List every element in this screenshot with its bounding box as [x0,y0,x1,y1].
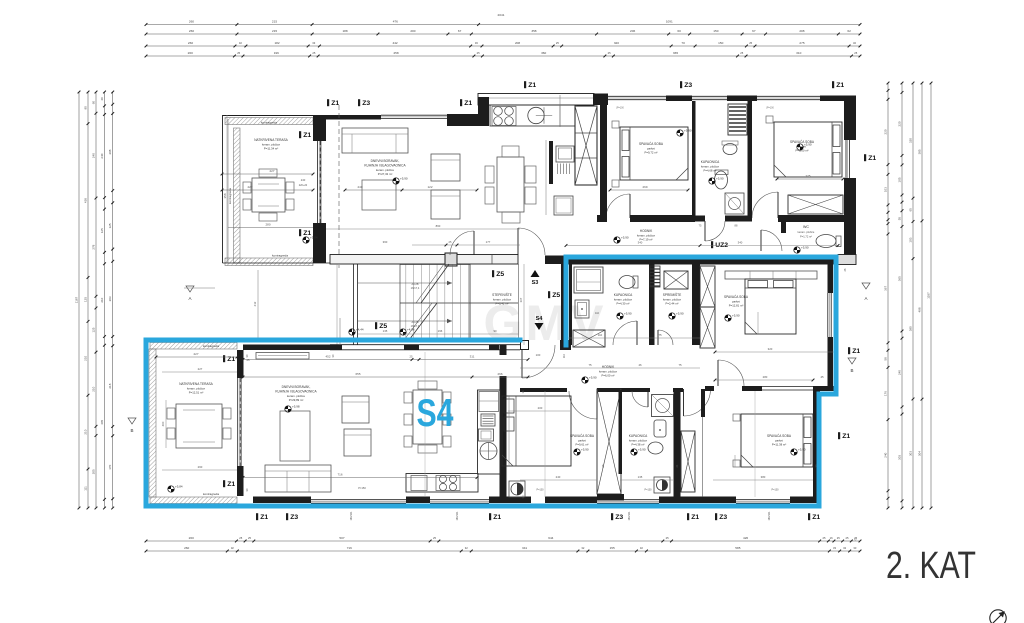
svg-text:240: 240 [301,178,306,182]
svg-text:55: 55 [897,217,901,221]
utility sink upper [556,146,574,162]
wall segment y115 [326,115,381,120]
level mark stair mid [400,329,406,335]
level mark kupaonica mid [617,313,623,319]
S4 mid bathroom shower [574,267,603,293]
svg-text:+5,84: +5,84 [310,236,318,240]
S4 terrace/living wall x237 [237,350,244,378]
kitchen counter upper [490,105,593,126]
svg-text:365: 365 [897,276,901,281]
svg-text:Z1: Z1 [842,433,850,440]
closet S4 between bath and bedroom [681,431,695,492]
svg-text:P=100: P=100 [772,489,780,492]
electro box in wall [445,253,457,266]
svg-text:150: 150 [713,29,718,33]
svg-text:25: 25 [247,358,250,362]
top chain row3 [146,45,860,47]
svg-text:Z5: Z5 [496,271,504,278]
svg-text:B: B [850,368,853,373]
svg-text:+5,90: +5,90 [676,312,684,316]
shower S4 [652,395,674,417]
svg-text:P=8,42 m²: P=8,42 m² [496,302,509,306]
S4 terrace bottom band [150,497,237,504]
svg-text:KUHINJA I BLAGOVAONICA: KUHINJA I BLAGOVAONICA [364,164,406,168]
svg-text:Z1: Z1 [331,100,339,107]
svg-text:16: 16 [830,536,833,540]
svg-text:426: 426 [743,536,748,540]
wall under blue S4 top boundary [566,260,838,265]
svg-text:+5,90: +5,90 [400,177,408,181]
door arc bedroom mid [718,360,744,386]
svg-text:keram. pločice: keram. pločice [798,230,815,234]
svg-text:25: 25 [556,41,559,45]
sliding door S4 terrace [237,378,239,466]
svg-text:210: 210 [91,386,95,391]
level mark wc [794,247,800,253]
svg-text:25: 25 [845,536,848,540]
interior wall bedroom1 left x600 [600,95,607,222]
svg-text:275: 275 [799,41,804,45]
svg-text:103: 103 [908,237,912,242]
svg-text:NATKRIVENA TERASA: NATKRIVENA TERASA [254,138,288,142]
svg-text:25: 25 [410,355,413,359]
wardrobe bedroom2 [788,195,843,214]
svg-text:278: 278 [91,244,95,249]
svg-text:227: 227 [269,169,274,173]
svg-text:188: 188 [342,29,347,33]
svg-text:177: 177 [486,240,491,244]
S4 armchairs [342,396,369,423]
wall spremiste/bedroom x692 [692,264,700,345]
svg-text:P=100: P=100 [537,489,545,492]
svg-text:+5,98: +5,98 [292,405,300,409]
svg-text:1187: 1187 [74,296,78,303]
svg-text:75: 75 [588,363,592,367]
upper dining table [497,157,524,212]
svg-text:A4,2B: A4,2B [411,320,418,324]
svg-text:SPAVAĆA SOBA: SPAVAĆA SOBA [639,141,664,146]
right chain 2 [921,83,923,508]
svg-text:442: 442 [392,41,397,45]
svg-text:A: A [864,296,867,301]
svg-text:367: 367 [519,297,523,302]
closet column small S4 [597,389,621,494]
svg-text:+5,90: +5,90 [638,448,646,452]
label Z5 stair mid [492,270,494,277]
top chain row1 [146,24,860,26]
svg-text:+4,96: +4,96 [407,328,415,332]
svg-text:P=12,51 m²: P=12,51 m² [189,391,204,395]
sink S4 [479,429,494,441]
svg-text:33: 33 [833,546,836,550]
upper bathroom fixtures [723,144,737,155]
svg-text:400: 400 [161,421,165,426]
upper terrace table and chairs [252,178,285,212]
stair core left double wall [353,264,355,345]
svg-text:240: 240 [91,153,95,158]
svg-text:90: 90 [493,329,497,333]
svg-text:340: 340 [738,241,743,245]
label Z1 S4 terrace wall top [223,355,225,362]
svg-text:180/101: 180/101 [350,511,353,521]
window in mid bedroom bottom [762,386,813,388]
svg-text:585: 585 [735,546,740,550]
upper living sofa [342,128,408,153]
svg-text:2. KAT: 2. KAT [886,545,976,587]
level mark bath upper [709,178,715,184]
left chain 2 [87,92,89,508]
wall top between windows 1 [666,96,692,102]
S4 small bedroom [502,396,571,466]
svg-text:180/101: 180/101 [456,511,459,521]
svg-text:32: 32 [853,41,856,45]
oven [481,414,495,426]
section marker B right [848,358,856,364]
wall kupaonica/spremiste x649 [649,264,655,345]
bottom Z labels [256,513,258,520]
svg-text:+5,90: +5,90 [624,312,632,316]
shaft x column bedroom mid [700,266,715,307]
stairs flights [400,265,470,303]
door arc bedroom2 [752,192,778,218]
door arc kupaonica mid [613,321,637,345]
svg-text:32: 32 [843,546,846,550]
door arc WC [761,230,782,251]
svg-text:S4: S4 [417,392,454,435]
bedrooms bottom wall y215 [597,215,607,222]
svg-text:+5,90: +5,90 [798,448,806,452]
svg-text:390: 390 [908,326,912,331]
svg-text:Z1: Z1 [227,481,235,488]
svg-text:304: 304 [917,451,921,456]
svg-text:218: 218 [108,383,112,388]
label Z1 right mid [848,347,850,354]
svg-text:Z1: Z1 [528,82,536,89]
svg-text:122: 122 [427,185,432,189]
svg-text:240: 240 [100,153,104,158]
svg-text:303: 303 [908,451,912,456]
svg-text:NATKRIVENA TERASA: NATKRIVENA TERASA [179,382,213,386]
svg-text:25: 25 [239,536,242,540]
stair walk line up [358,282,452,284]
door jamb box S4 entry [521,341,529,350]
svg-text:303: 303 [897,455,901,460]
right chain outer [930,83,932,508]
wall top right section [820,96,856,102]
svg-text:311: 311 [470,355,475,359]
stair break line 2 [409,303,437,340]
window Z1 top bedroom1 [608,95,666,97]
svg-text:125: 125 [108,223,112,228]
svg-text:385: 385 [917,149,921,154]
svg-text:125: 125 [91,327,95,332]
svg-text:kontragreda: kontragreda [261,121,277,125]
svg-text:KUPAONICA: KUPAONICA [614,293,633,297]
svg-text:203: 203 [108,296,112,301]
svg-text:DNEVNI BORAVAK,: DNEVNI BORAVAK, [282,385,311,389]
svg-text:210: 210 [100,297,104,302]
svg-text:+5,90: +5,90 [732,314,740,318]
svg-text:341: 341 [522,546,527,550]
svg-text:70: 70 [681,41,685,45]
stair walk line down [358,320,452,322]
svg-text:Z3: Z3 [290,514,298,521]
svg-text:60: 60 [91,101,95,105]
S4 middle band left wall under blue [561,264,564,345]
svg-text:358: 358 [223,193,227,198]
svg-text:110: 110 [598,333,603,337]
S4 mid bedroom right wall [828,264,834,293]
svg-text:Z1: Z1 [868,155,876,162]
kitchen sink circle [528,107,544,123]
section marker A left [186,286,194,292]
svg-text:kontragreda: kontragreda [272,254,288,258]
svg-text:260: 260 [184,546,189,550]
svg-text:P=100: P=100 [645,489,653,492]
door arc small bedroom S4 [569,391,597,419]
door arc S4 entry [522,345,555,378]
svg-text:25: 25 [740,51,743,55]
svg-text:208: 208 [799,29,804,33]
svg-text:110: 110 [595,312,600,315]
S4 bottom kitchen counter [406,474,478,493]
WC partition [781,218,786,233]
upper terrace bottom kontragreda band [225,258,313,266]
svg-text:+5,90: +5,90 [581,448,589,452]
level mark spremiste [669,313,675,319]
svg-text:P=9,72 m²: P=9,72 m² [645,151,658,155]
svg-text:Z1: Z1 [260,514,268,521]
level mark hodnik S4 [582,377,588,383]
svg-text:A4,2B: A4,2B [411,282,418,286]
wall between upper terrace and living x313-326 [313,115,326,141]
left chain 3 [95,92,97,508]
left chain outer [78,92,80,508]
level mark stair low [349,329,355,335]
svg-text:458: 458 [393,51,398,55]
svg-text:367: 367 [883,286,887,291]
label Z1 right wall [864,154,866,161]
svg-text:P=11,38 m²: P=11,38 m² [772,443,786,447]
bottom chain row2 [146,550,860,552]
upper living armchairs [431,154,460,181]
window top bathroom [692,95,727,97]
svg-text:320: 320 [768,347,773,351]
S4 living furniture: sofa [265,465,331,492]
svg-text:320: 320 [614,41,619,45]
svg-text:P=11,34 m²: P=11,34 m² [264,147,278,151]
stove burners [494,107,503,116]
svg-text:476: 476 [393,20,398,24]
label Z1 terrace wall upper [299,131,301,138]
svg-text:KUHINJA I BLAGOVAONICA: KUHINJA I BLAGOVAONICA [275,390,317,394]
svg-text:135: 135 [383,329,388,333]
svg-text:196: 196 [274,51,279,55]
svg-text:Z1: Z1 [493,514,501,521]
svg-text:240: 240 [357,185,362,189]
upper bedroom2 bed [774,122,842,177]
svg-text:+5,90: +5,90 [804,143,812,147]
inner dim lines corridor upper [566,245,838,247]
right chain 4 [901,83,903,508]
svg-text:25: 25 [749,41,752,45]
svg-text:260: 260 [188,41,193,45]
svg-text:P=27,32 m²: P=27,32 m² [378,172,393,176]
S4 kitchen tall column [478,390,501,474]
door arc living to corridor upper [450,231,474,255]
svg-text:176: 176 [883,391,887,396]
door arc apartment entry upper [518,228,545,255]
corridor bottom wall y388 segments [520,388,567,392]
label Z3 top row [680,81,682,88]
svg-text:+5,84: +5,84 [175,485,183,489]
right chain 3 [912,83,914,508]
svg-text:+5,90: +5,90 [621,236,629,240]
level mark bedroom mid [725,315,731,321]
svg-text:25: 25 [477,51,480,55]
wall pier kitchen left corner [478,97,489,126]
svg-text:150: 150 [718,41,723,45]
svg-text:45: 45 [820,375,824,379]
svg-text:220: 220 [883,129,887,134]
svg-text:Z3: Z3 [615,514,623,521]
svg-text:220: 220 [897,121,901,126]
svg-text:644: 644 [548,536,553,540]
svg-text:67: 67 [752,29,756,33]
S4 living right wall x500 [500,345,507,355]
S4 mid bedroom wardrobe strip [725,271,817,279]
S4 mid bathroom toilet [619,276,635,289]
svg-text:(P=100: (P=100 [766,108,774,110]
svg-text:215: 215 [272,29,277,33]
dashed beam line [338,105,340,268]
svg-text:P=4,68 m²: P=4,68 m² [704,169,717,173]
upper terrace hatch strip vertical [234,128,241,263]
svg-text:25: 25 [312,51,315,55]
svg-text:269: 269 [642,185,647,189]
svg-text:260: 260 [189,536,194,540]
label Z1 second row right [460,99,462,106]
S4 big bedroom bed [741,414,813,467]
wall top between windows 2 [727,96,757,102]
projection lines lower strip [424,352,426,497]
svg-text:32: 32 [640,546,643,550]
S4 right wall x813 [813,390,820,497]
svg-text:25: 25 [608,51,611,55]
svg-text:180/101: 180/101 [768,511,771,521]
section marker A right [862,283,870,289]
svg-text:310: 310 [796,51,801,55]
svg-text:438: 438 [83,198,87,203]
wall pier right of kitchen window [593,94,608,106]
door arc big bedroom S4 [684,389,711,416]
svg-text:P=6,00 m²: P=6,00 m² [602,374,615,378]
S4 top cabinet [256,353,309,360]
stair break line 1 [421,264,449,303]
label Z5 stair right [548,291,550,298]
corridor bottom wall / stair top wall y255 : outlined band [330,255,518,265]
washer icon small bedroom [509,481,525,497]
svg-text:KUPAONICA: KUPAONICA [701,160,720,164]
upper apartment right exterior wall [844,96,856,141]
interior wall bathroom left x692 [692,101,696,218]
svg-text:P=1,72 m²: P=1,72 m² [800,235,812,239]
svg-text:205: 205 [91,469,95,474]
label Z1 top row [524,81,526,88]
svg-text:227: 227 [198,367,203,371]
svg-text:25: 25 [666,536,669,540]
svg-text:208: 208 [108,149,112,154]
svg-text:S3: S3 [532,280,539,286]
svg-text:340: 340 [638,241,643,245]
svg-text:KUPAONICA: KUPAONICA [629,434,648,438]
svg-text:498: 498 [917,307,921,312]
S3 S4 arrows [531,270,540,277]
door arc bathroom S4 [632,391,648,407]
S4 mid bedroom bed [745,279,796,334]
shaft with X x575 y105 [575,106,597,185]
wall stub below blue entry wall [560,340,571,350]
svg-text:40: 40 [100,97,104,101]
svg-text:67: 67 [458,29,462,33]
svg-text:170: 170 [108,464,112,469]
svg-text:240: 240 [556,475,561,479]
top chain row2 [146,33,860,35]
svg-text:32: 32 [465,546,468,550]
svg-text:655: 655 [355,372,360,376]
svg-text:208: 208 [515,41,520,45]
svg-text:260: 260 [198,465,203,469]
svg-text:155: 155 [610,546,615,550]
right chain 5 [887,83,889,508]
interior wall bathroom right x747.5 [748,101,753,218]
inner dims stair [358,333,518,335]
svg-text:125: 125 [100,228,104,233]
svg-text:33: 33 [312,41,315,45]
wall left of utility [549,141,553,184]
svg-text:+5,90: +5,90 [684,129,692,133]
svg-text:260: 260 [189,29,194,33]
closet box below bathroom S4 mid [573,330,605,347]
level mark living upper [393,178,399,184]
svg-text:90: 90 [83,106,87,110]
svg-text:100: 100 [536,353,541,357]
label Z1 top row right [832,81,834,88]
svg-text:358: 358 [531,29,536,33]
S4 living rug [280,411,310,461]
svg-text:212: 212 [253,301,257,306]
door arc bathroom upper [705,221,725,241]
svg-text:Z3: Z3 [362,100,370,107]
svg-text:32: 32 [581,546,584,550]
svg-text:860: 860 [436,224,441,228]
svg-text:kontragreda: kontragreda [203,344,219,348]
svg-text:P=9,61 m²: P=9,61 m² [576,443,589,447]
svg-text:65: 65 [908,208,912,212]
level mark terrace upper [303,237,309,243]
svg-text:P=29,89 m²: P=29,89 m² [289,398,304,402]
svg-text:25: 25 [854,51,857,55]
svg-text:+5,90: +5,90 [801,246,809,250]
washer in bathroom S4 [654,477,670,493]
svg-text:215: 215 [272,20,277,24]
label Z1 second row [327,99,329,106]
label Z1 S4 terrace wall bottom [223,480,225,487]
svg-text:Z1: Z1 [852,348,860,355]
svg-text:Z1: Z1 [691,514,699,521]
label Z1 terrace wall lower [299,229,301,236]
svg-text:Z5: Z5 [552,292,560,299]
